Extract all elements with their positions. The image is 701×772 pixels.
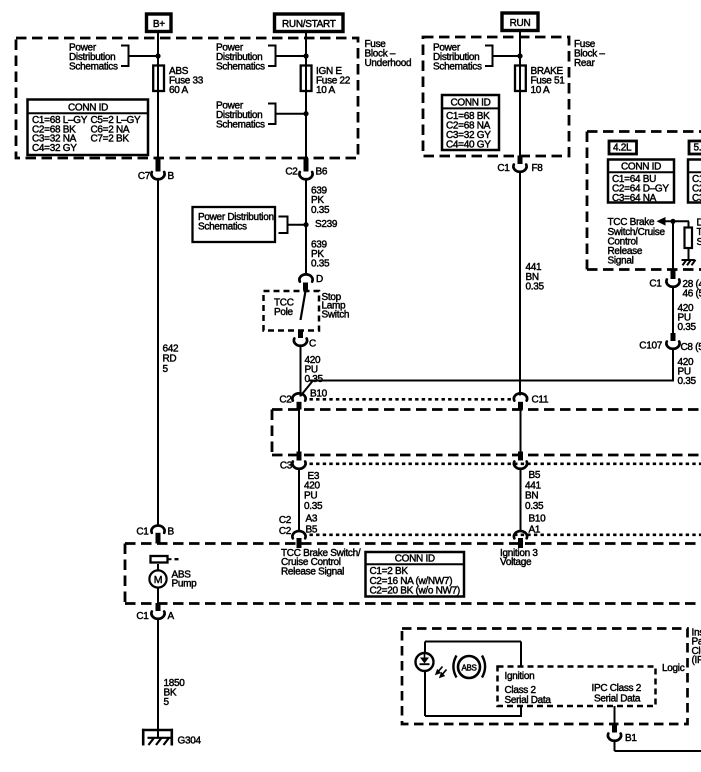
svg-text:C7=2 BK: C7=2 BK xyxy=(91,134,130,145)
svg-text:Logic: Logic xyxy=(662,663,685,674)
svg-text:C: C xyxy=(309,339,316,350)
svg-text:RUN/START: RUN/START xyxy=(282,19,336,30)
svg-text:S239: S239 xyxy=(315,219,338,230)
svg-text:Schematics: Schematics xyxy=(433,61,482,72)
svg-text:C3: C3 xyxy=(280,461,293,472)
svg-text:Schematics: Schematics xyxy=(198,222,247,233)
svg-text:0.35: 0.35 xyxy=(311,205,330,216)
svg-text:C2: C2 xyxy=(279,515,292,526)
svg-text:Ignition: Ignition xyxy=(505,671,535,682)
svg-text:Pole: Pole xyxy=(274,307,294,318)
svg-text:G304: G304 xyxy=(178,736,202,747)
svg-text:C7: C7 xyxy=(138,171,151,182)
svg-text:C4=40 GY: C4=40 GY xyxy=(446,139,491,150)
svg-text:F8: F8 xyxy=(532,163,544,174)
svg-text:ABS: ABS xyxy=(461,663,476,672)
svg-text:CONN ID: CONN ID xyxy=(68,102,108,113)
svg-text:0.35: 0.35 xyxy=(305,374,324,385)
svg-text:C11: C11 xyxy=(532,395,549,406)
svg-text:46 (5.3L): 46 (5.3L) xyxy=(683,289,701,300)
svg-text:C3=64 NA: C3=64 NA xyxy=(612,193,657,204)
svg-text:D: D xyxy=(316,274,323,285)
svg-text:0.35: 0.35 xyxy=(678,376,697,387)
svg-text:B10: B10 xyxy=(310,389,328,400)
svg-text:0.35: 0.35 xyxy=(311,259,330,270)
svg-text:Underhood: Underhood xyxy=(365,58,412,69)
svg-text:Schematics: Schematics xyxy=(216,119,265,130)
svg-text:B6: B6 xyxy=(316,167,328,178)
svg-text:10 A: 10 A xyxy=(316,85,335,96)
svg-text:Voltage: Voltage xyxy=(500,557,532,568)
svg-text:C1: C1 xyxy=(649,279,662,290)
svg-text:Signal: Signal xyxy=(608,256,634,267)
svg-text:B1: B1 xyxy=(625,733,637,744)
svg-text:A: A xyxy=(168,611,175,622)
svg-text:Serial Data: Serial Data xyxy=(505,695,552,706)
svg-text:Rear: Rear xyxy=(574,58,595,69)
svg-text:C1: C1 xyxy=(136,611,149,622)
svg-text:4.2L: 4.2L xyxy=(613,143,632,154)
svg-text:CONN ID: CONN ID xyxy=(450,97,490,108)
svg-text:C4=32 GY: C4=32 GY xyxy=(32,143,77,154)
svg-text:0.35: 0.35 xyxy=(525,501,544,512)
svg-text:0.35: 0.35 xyxy=(678,322,697,333)
svg-text:5: 5 xyxy=(164,697,170,708)
svg-text:C2: C2 xyxy=(285,167,298,178)
svg-text:M: M xyxy=(154,574,162,586)
svg-text:B5: B5 xyxy=(529,470,541,481)
svg-text:C2=20 BK (w/o NW7): C2=20 BK (w/o NW7) xyxy=(370,586,460,597)
svg-text:B: B xyxy=(168,527,175,538)
svg-text:C107: C107 xyxy=(639,341,662,352)
svg-text:IPC Class 2: IPC Class 2 xyxy=(592,683,642,694)
svg-text:RUN: RUN xyxy=(510,18,531,29)
svg-text:Serial Data: Serial Data xyxy=(594,693,641,704)
svg-text:10 A: 10 A xyxy=(531,85,550,96)
svg-text:0.35: 0.35 xyxy=(526,281,545,292)
svg-text:B10: B10 xyxy=(529,513,547,524)
svg-text:A1: A1 xyxy=(529,524,541,535)
svg-text:B: B xyxy=(168,171,175,182)
svg-text:CONN ID: CONN ID xyxy=(621,162,661,173)
svg-text:Pump: Pump xyxy=(172,579,198,590)
svg-text:Schematics: Schematics xyxy=(69,61,118,72)
svg-text:B+: B+ xyxy=(153,19,165,30)
svg-text:(IPC): (IPC) xyxy=(692,655,701,666)
svg-text:5: 5 xyxy=(163,364,169,375)
svg-text:Switch: Switch xyxy=(322,310,350,321)
svg-text:C2: C2 xyxy=(279,394,292,405)
svg-text:60 A: 60 A xyxy=(169,85,188,96)
svg-text:A3: A3 xyxy=(306,514,318,525)
svg-text:CONN ID: CONN ID xyxy=(395,554,435,565)
svg-text:C1: C1 xyxy=(497,163,510,174)
svg-text:B5: B5 xyxy=(306,524,318,535)
svg-text:Schematics: Schematics xyxy=(216,61,265,72)
svg-text:C2: C2 xyxy=(279,526,292,537)
svg-text:C8 (5.3L): C8 (5.3L) xyxy=(681,342,701,353)
svg-text:C3=64: C3=64 xyxy=(692,193,701,204)
svg-text:0.35: 0.35 xyxy=(304,501,323,512)
svg-text:5.3L: 5.3L xyxy=(694,143,701,154)
svg-text:Release Signal: Release Signal xyxy=(281,566,344,577)
svg-text:Se: Se xyxy=(697,237,701,248)
svg-text:C1: C1 xyxy=(136,527,149,538)
